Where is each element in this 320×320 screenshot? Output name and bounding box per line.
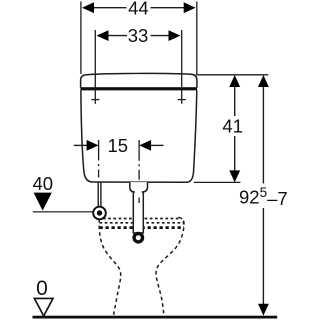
svg-text:0: 0: [36, 277, 48, 300]
flush valve housing + flush pipe: [130, 182, 148, 233]
bowl outline right dashed: [156, 221, 184, 316]
shut-off valve circle: [93, 207, 106, 220]
bottom reference line (cistern base): [194, 181, 241, 183]
dim 33 line: [108, 35, 128, 37]
center line left (supply axis): [98, 140, 100, 178]
dim 15 arrow left (pointing right): [87, 140, 99, 151]
dim 92 arrow up: [258, 75, 269, 87]
dim 33 arrow left: [97, 30, 109, 41]
svg-text:33: 33: [128, 25, 149, 46]
flush pipe outlet ring: [134, 234, 142, 242]
dim 33 arrow right: [169, 30, 181, 41]
cistern lid: [81, 73, 197, 87]
supply pipe: [97, 182, 99, 207]
shut-off valve inner dot: [97, 210, 102, 215]
level 40 triangle: [34, 193, 52, 211]
dim 44 ext line left: [80, 2, 82, 75]
svg-text:44: 44: [128, 0, 149, 18]
dim 44 line: [93, 7, 127, 9]
dim 15 line left tail: [74, 144, 88, 146]
dim 44 arrow right: [184, 2, 196, 13]
dim 44 ext line right: [196, 2, 198, 75]
dim 41 arrow down: [229, 170, 240, 182]
flush axis dash inside pipe: [138, 198, 140, 204]
datum 0 triangle: [34, 298, 53, 316]
level 40 line: [33, 211, 93, 213]
svg-text:41: 41: [222, 116, 243, 137]
dim 15 arrow right (pointing left): [139, 140, 151, 151]
bowl rim dashed row 2: [100, 222, 184, 224]
dim 44 arrow left: [82, 2, 94, 13]
bowl outline left dashed: [99, 219, 121, 316]
bowl rim dashed row 1: [103, 218, 181, 220]
cistern lid bottom band: [80, 87, 197, 90]
dim 92 line: [262, 87, 264, 184]
floor line: [33, 316, 278, 319]
dim 33 ext line right + fixing cross: [181, 30, 183, 104]
dim 41 arrow up: [229, 75, 240, 87]
svg-text:15: 15: [108, 135, 129, 156]
dim 33 ext line left + fixing cross: [94, 30, 96, 104]
dim 15 right tail: [150, 144, 163, 146]
top reference line: [196, 74, 269, 76]
cistern body: [81, 90, 197, 182]
bowl rim right end cap: [179, 217, 184, 224]
dim 41 line: [234, 87, 236, 117]
svg-text:40: 40: [33, 173, 54, 194]
dim 92 arrow down: [258, 304, 269, 316]
center line right (flush axis): [138, 140, 140, 203]
bowl rim dashed row 3: [100, 226, 185, 229]
